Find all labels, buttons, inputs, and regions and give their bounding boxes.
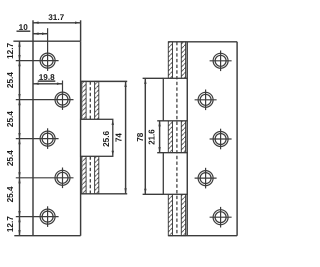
right barrel mid knuckle (hatched) [168, 121, 185, 153]
dimension 74 (vertical, right of left view) [124, 81, 127, 193]
hole B5 [210, 207, 232, 228]
label 31.7 [48, 13, 64, 22]
svg-text:25.4: 25.4 [6, 150, 15, 166]
left barrel knuckle 2 (hatched section) [82, 156, 99, 194]
svg-text:78: 78 [136, 132, 145, 142]
hole A1 [16, 28, 59, 71]
left barrel pin centerline (lower, dashed) [89, 156, 91, 194]
svg-text:25.4: 25.4 [6, 111, 15, 127]
label 25.4 (row 3) [6, 111, 15, 127]
left barrel bottom edge + 74 extension [81, 193, 128, 195]
label 25.4 (row 4) [6, 150, 15, 166]
dimension 31.7 with extension lines [33, 20, 81, 41]
svg-text:10: 10 [19, 23, 29, 32]
label 25.6 [102, 130, 111, 146]
label 12.7 (row 1) [6, 42, 15, 58]
label 19.8 [39, 73, 55, 82]
dimension 10 (leader text + arrows) [17, 31, 48, 35]
right gap box 2 with 78 extension [143, 153, 188, 195]
hole A5 [16, 206, 59, 227]
hole A4 [16, 168, 74, 189]
svg-text:31.7: 31.7 [48, 13, 64, 22]
label 74 [114, 133, 123, 143]
label 21.6 [148, 129, 157, 145]
chain dimension arrowheads [18, 41, 21, 236]
svg-text:21.6: 21.6 [148, 129, 157, 145]
label 25.4 (row 2) [6, 72, 15, 88]
label 12.7 (row 6) [6, 216, 15, 232]
svg-text:19.8: 19.8 [39, 73, 55, 82]
left vertical dimension line (chain) [19, 41, 21, 236]
hole A3 [16, 128, 59, 149]
left barrel top edge + 74 extension [81, 80, 128, 82]
dimension 19.8 (leader text + arrows) [33, 81, 63, 85]
mid knuckle bottom edge + 21.6 extension [157, 152, 185, 154]
dimension 78 (vertical) [144, 78, 147, 194]
hole B1 [210, 51, 232, 72]
right barrel bottom knuckle (hatched) [168, 194, 185, 235]
mid knuckle top edge + 21.6 extension [157, 120, 185, 122]
svg-text:25.6: 25.6 [102, 130, 111, 146]
svg-text:74: 74 [114, 133, 123, 143]
svg-text:25.4: 25.4 [6, 186, 15, 202]
right barrel top knuckle (hatched) [168, 42, 185, 79]
svg-text:12.7: 12.7 [6, 216, 15, 232]
hole B4 [195, 168, 217, 189]
label 78 [136, 132, 145, 142]
right pin centerline (dashed, full) [176, 42, 178, 236]
left barrel pin centerline (upper, dashed) [89, 81, 91, 119]
svg-text:25.4: 25.4 [6, 72, 15, 88]
hole B3 [210, 129, 232, 150]
right gap box 1 with 78 extension [143, 78, 188, 121]
right leaf outline [168, 42, 237, 236]
knuckle gap box with 25.6 dimension line [81, 119, 114, 156]
label 25.4 (row 5) [6, 186, 15, 202]
svg-text:12.7: 12.7 [6, 42, 15, 58]
dimension 21.6 (vertical) [158, 121, 161, 153]
hole B2 [195, 90, 217, 111]
label 10 [19, 23, 29, 32]
left leaf outline [13, 41, 80, 236]
hole A2 [16, 81, 74, 110]
left barrel knuckle 1 (hatched section) [82, 81, 99, 119]
